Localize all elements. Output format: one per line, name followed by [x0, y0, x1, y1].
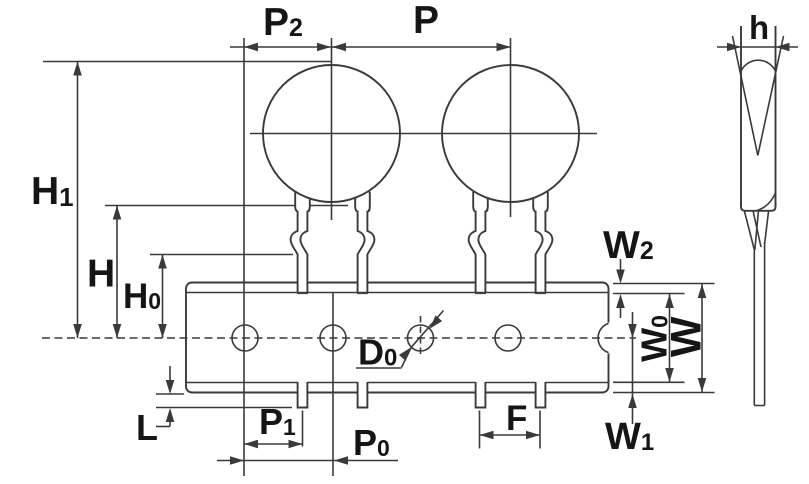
disc 1 left lead with crimp [291, 192, 310, 294]
disc 2 left lead with crimp [469, 192, 488, 294]
D0 label with underline [356, 332, 402, 373]
label P2 [263, 1, 303, 44]
tape top edge extension line [613, 283, 715, 285]
side view coating V left line [733, 36, 758, 156]
label W (rotated) [663, 316, 711, 357]
svg-text:h: h [749, 9, 769, 46]
sprocket hole 4 [495, 325, 521, 351]
label L [136, 407, 158, 448]
W2 arrows [616, 259, 625, 318]
carrier tape body outline [186, 283, 609, 393]
F extension lines [480, 411, 541, 449]
label P [413, 0, 439, 42]
dimension H0 line with arrows [158, 255, 167, 339]
disc horizontal centerline [250, 133, 597, 135]
L lower extension line (lead tip level) [156, 407, 292, 409]
label h [749, 9, 769, 46]
svg-text:L: L [136, 407, 158, 448]
svg-text:H: H [87, 253, 115, 296]
sprocket hole 2 [320, 325, 346, 351]
label W1 [605, 416, 654, 458]
D0 leader diagonal through hole with arrows [399, 311, 444, 368]
dimension P line with arrows [331, 43, 511, 52]
disc 2 left lead tip [476, 381, 486, 407]
dimension P2 line with arrows [230, 43, 331, 52]
disc 1 right lead with crimp [355, 192, 374, 294]
tape bottom edge extension line [613, 392, 715, 394]
disc 2 right lead tip [536, 381, 546, 407]
svg-text:W: W [663, 316, 711, 357]
L upper extension line (tape bottom) [156, 393, 184, 395]
label H0 [123, 277, 161, 316]
dimension h line with outside arrows [717, 43, 798, 52]
side view single lead [754, 242, 764, 406]
dimension P1 line with arrows [244, 440, 303, 449]
side view dome top [741, 60, 776, 71]
disc 1 left lead tip [298, 381, 308, 407]
W dimension line with arrows [698, 284, 707, 392]
adhesive tape top extension line [613, 293, 685, 295]
tape edge notch [596, 323, 611, 354]
hole 3 dashed vertical centerline [420, 316, 422, 358]
L leader [156, 426, 170, 428]
side view body right edge / h extension [775, 26, 777, 207]
W1 dimension line with arrows [628, 312, 637, 424]
label H [87, 253, 115, 296]
H reference line (disc bottom datum) [105, 205, 348, 207]
P1 extension line from lead 1 [302, 411, 304, 447]
side view converging lead lines [745, 212, 769, 251]
disc 1 right lead tip [358, 381, 368, 407]
disc 2 right lead with crimp [533, 192, 552, 294]
label P0 [353, 422, 390, 463]
dimension P0 line with outside arrows [217, 456, 398, 465]
side view body bottom with corners [741, 203, 776, 211]
disc 2 vertical centerline [510, 38, 512, 217]
label H1 [31, 170, 74, 213]
dimension F line with arrows [480, 431, 541, 440]
side view body left edge / h extension [740, 26, 742, 207]
svg-text:F: F [506, 399, 527, 438]
tape inner top edge line (adhesive tape) [187, 292, 608, 294]
reference vertical line through hole 1 (P2/P0/P1 datum) [243, 38, 245, 476]
disc 1 vertical centerline [331, 38, 333, 220]
H0 reference line (crimp datum) [150, 254, 293, 256]
L upper arrow [166, 366, 175, 394]
label F [506, 399, 527, 438]
L lower arrow [166, 408, 175, 427]
label P1 [259, 401, 296, 442]
sprocket hole 3 (D0 callout) [408, 325, 434, 351]
dimension H line with arrows [113, 206, 122, 339]
disc 2 body [442, 65, 579, 202]
disc 1 body [263, 65, 400, 202]
top reference line (disc top, H1 datum) [43, 61, 331, 63]
tape inner bottom edge line [187, 382, 608, 384]
adhesive tape bottom extension line [613, 381, 685, 383]
label W2 [603, 224, 654, 267]
W0 dimension line with arrows [665, 294, 674, 382]
sprocket hole 1 [232, 325, 258, 351]
dimension H1 line with arrows [73, 62, 82, 339]
tape centerline (dashed) [42, 337, 636, 339]
side view bottom fillet curve [757, 192, 776, 211]
vertical line through hole 2 below disc 1 [332, 293, 334, 477]
label W0 (rotated) [634, 315, 675, 362]
side view coating V right line [758, 36, 784, 156]
svg-text:P: P [413, 0, 439, 42]
